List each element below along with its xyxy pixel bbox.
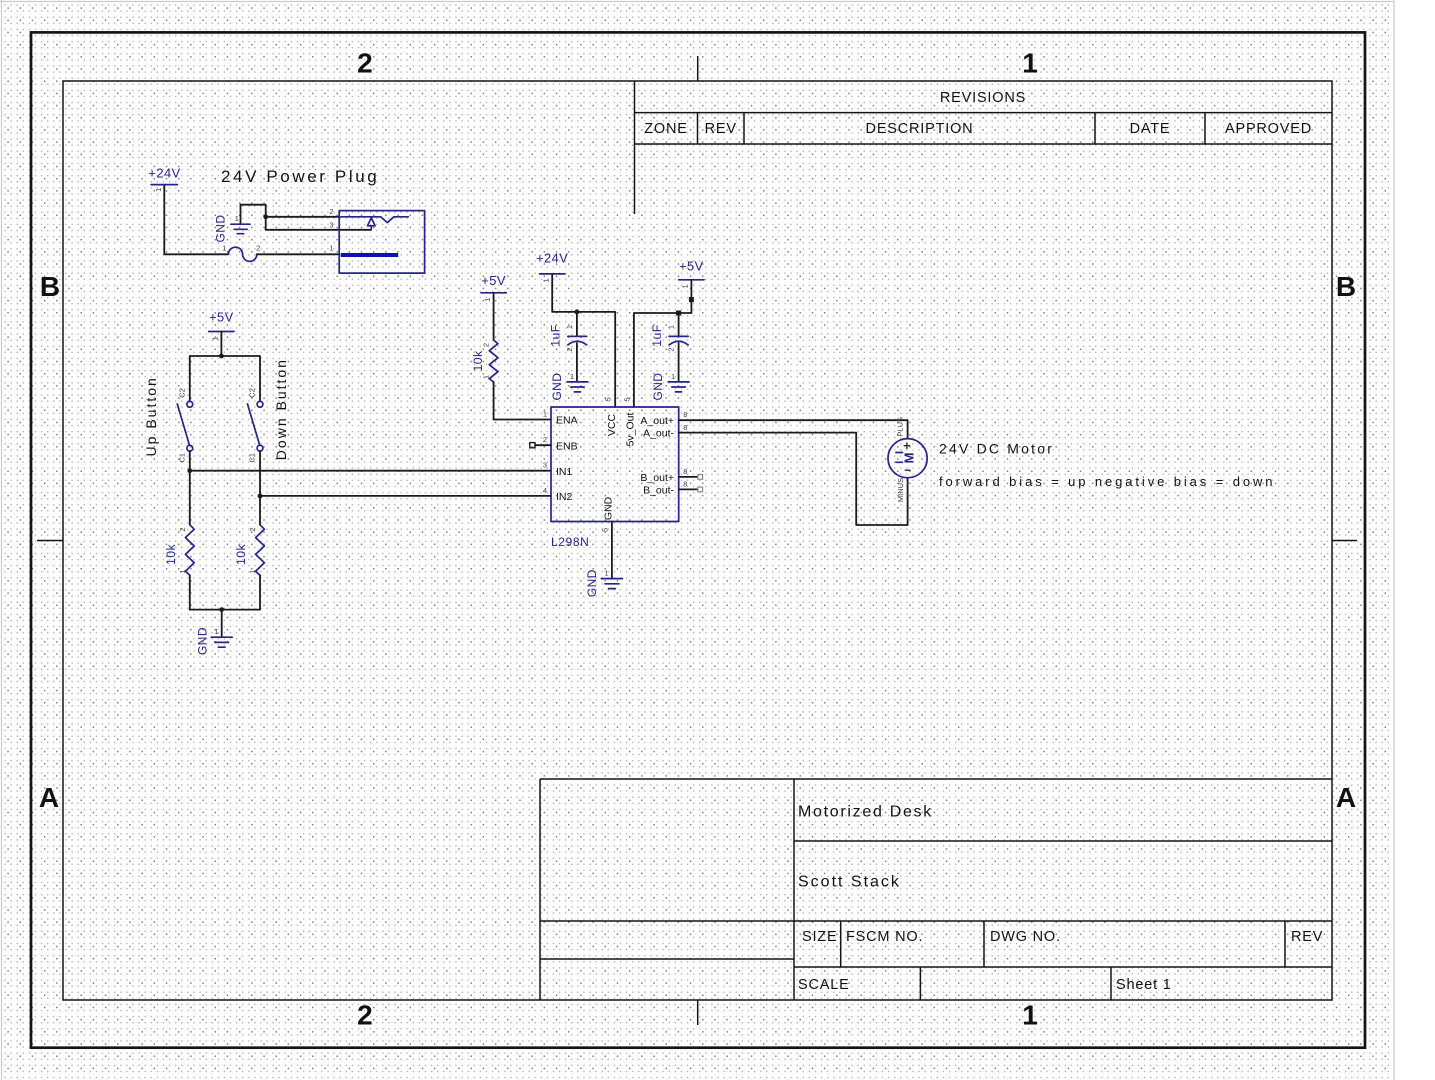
svg-text:C2: C2 [248, 388, 257, 398]
svg-text:B_out+: B_out+ [640, 472, 674, 484]
svg-text:1: 1 [482, 375, 491, 379]
svg-text:IN1: IN1 [556, 466, 573, 478]
svg-text:1: 1 [570, 372, 574, 381]
op-amp U1 L298N body [543, 397, 688, 532]
B_out- stub [679, 487, 703, 492]
wire +24V to VCC [552, 274, 615, 407]
svg-text:2: 2 [357, 1000, 373, 1031]
ENB no-connect stub [530, 443, 551, 448]
capacitor C1 1uF [548, 312, 586, 381]
svg-text:SCALE: SCALE [798, 977, 850, 993]
power symbol +5V (ENA) [481, 273, 506, 302]
svg-text:Scott Stack: Scott Stack [798, 874, 901, 891]
barrel jack J1 [339, 211, 424, 274]
svg-text:SIZE: SIZE [802, 929, 837, 945]
revisions table lines [635, 81, 1333, 214]
svg-text:+24V: +24V [148, 166, 180, 181]
svg-text:2: 2 [543, 435, 547, 444]
wire +5V to R3 [493, 293, 495, 340]
svg-text:1: 1 [211, 336, 220, 340]
wire bottom rail [190, 609, 260, 611]
switch SW1 Up [177, 388, 192, 462]
svg-text:Motorized Desk: Motorized Desk [798, 804, 933, 821]
svg-text:3: 3 [543, 461, 547, 470]
power symbol +5V (buttons) [209, 310, 234, 341]
svg-text:8: 8 [683, 480, 687, 489]
svg-text:2: 2 [482, 343, 491, 347]
svg-text:1: 1 [667, 325, 676, 329]
svg-text:1: 1 [248, 569, 257, 573]
svg-text:ENA: ENA [556, 415, 578, 427]
svg-text:5: 5 [601, 528, 610, 532]
zone tick bottom [697, 1000, 699, 1025]
svg-text:DATE: DATE [1130, 121, 1171, 137]
svg-text:GND: GND [651, 373, 665, 401]
svg-text:GND: GND [603, 496, 615, 520]
svg-text:A_out+: A_out+ [640, 415, 674, 427]
svg-text:+5V: +5V [679, 259, 704, 274]
wire fuse to jack pin1 [257, 253, 339, 255]
ground GND (buttons) [195, 627, 232, 655]
junction [575, 310, 580, 315]
svg-text:10k: 10k [234, 544, 248, 565]
svg-text:5v_Out: 5v_Out [624, 412, 636, 446]
svg-text:1: 1 [329, 244, 333, 253]
wire IN1 [190, 470, 551, 472]
svg-text:ENB: ENB [556, 440, 578, 452]
svg-text:A: A [39, 782, 59, 813]
svg-text:L298N: L298N [551, 535, 589, 549]
wire to jack pin2 [266, 216, 340, 218]
power symbol +5V (right) [679, 259, 704, 289]
svg-text:1: 1 [483, 297, 492, 301]
svg-text:REV: REV [1291, 929, 1323, 945]
wire IC gnd [611, 522, 613, 579]
svg-text:B: B [1336, 271, 1356, 302]
power symbol +24V (VCC) [536, 251, 568, 283]
B_out+ stub [679, 475, 703, 480]
svg-text:1: 1 [681, 284, 690, 288]
zone tick right [1332, 540, 1357, 542]
svg-text:8: 8 [683, 410, 687, 419]
svg-text:APPROVED: APPROVED [1225, 121, 1312, 137]
wire to jack pin3 [266, 229, 371, 231]
inner border frame [63, 81, 1332, 1000]
svg-text:GND: GND [214, 215, 228, 243]
svg-text:1: 1 [222, 244, 226, 253]
svg-text:C1: C1 [177, 453, 186, 463]
svg-text:DESCRIPTION: DESCRIPTION [866, 121, 974, 137]
svg-text:1: 1 [543, 410, 547, 419]
svg-text:+5V: +5V [481, 273, 506, 288]
svg-text:1: 1 [671, 372, 675, 381]
svg-text:ZONE: ZONE [644, 121, 687, 137]
wire gnd riser [241, 205, 266, 230]
ground GND (C1) [550, 372, 588, 401]
svg-text:1: 1 [235, 214, 239, 223]
capacitor C2 1uF [650, 313, 688, 381]
svg-text:1uF: 1uF [650, 324, 664, 346]
svg-text:1: 1 [178, 569, 187, 573]
svg-text:2: 2 [357, 48, 373, 79]
svg-text:IN2: IN2 [556, 491, 573, 503]
fuse F1 [222, 244, 260, 262]
svg-text:1: 1 [605, 569, 609, 578]
svg-text:24V Power Plug: 24V Power Plug [221, 167, 379, 186]
svg-text:FSCM NO.: FSCM NO. [846, 929, 923, 945]
svg-text:2: 2 [256, 244, 260, 253]
svg-text:A: A [1336, 782, 1356, 813]
svg-text:24V DC Motor: 24V DC Motor [939, 441, 1054, 457]
svg-text:M: M [902, 453, 917, 464]
svg-text:VCC: VCC [606, 413, 618, 436]
wire +5V stub [220, 332, 222, 357]
svg-text:+5V: +5V [209, 310, 234, 325]
wire A_out- to motor [679, 433, 908, 525]
junction [258, 494, 263, 499]
svg-text:1: 1 [215, 627, 219, 636]
junction square upper [689, 297, 694, 302]
svg-text:1uF: 1uF [548, 324, 562, 346]
wire split to switches [190, 356, 260, 401]
svg-text:GND: GND [550, 373, 564, 401]
wire to gnd [221, 610, 223, 637]
zone tick top [697, 56, 699, 81]
switch SW2 Down [248, 388, 263, 462]
junction [219, 354, 224, 359]
title block lines [540, 779, 1332, 1000]
svg-text:5: 5 [622, 397, 631, 401]
ground GND (plug) [214, 205, 251, 243]
svg-text:2: 2 [667, 347, 676, 351]
svg-text:MINUS: MINUS [896, 478, 905, 502]
resistor R3 10k [471, 340, 498, 382]
resistor R2 10k [234, 496, 264, 610]
svg-text:forward bias = up negative bia: forward bias = up negative bias = down [939, 474, 1275, 489]
svg-text:2: 2 [248, 527, 257, 531]
svg-text:GND: GND [195, 627, 209, 655]
wire A_out+ to motor [679, 420, 908, 438]
svg-text:Up Button: Up Button [143, 376, 159, 456]
svg-text:B: B [40, 271, 60, 302]
junction [263, 214, 268, 219]
svg-text:4: 4 [543, 486, 547, 495]
wire +5V right down [634, 280, 692, 407]
svg-text:1: 1 [1022, 48, 1038, 79]
svg-text:Down Button: Down Button [273, 358, 289, 460]
ground GND (IC) [585, 569, 623, 598]
wire SW2 to IN2 junction [259, 451, 261, 496]
wire SW1 to IN1 junction [189, 451, 191, 471]
svg-text:B_out-: B_out- [643, 485, 674, 497]
zone tick left [37, 540, 63, 542]
wire +24V to fuse [164, 186, 228, 255]
svg-text:10k: 10k [164, 544, 178, 565]
svg-text:C2: C2 [177, 388, 186, 398]
svg-text:2: 2 [329, 207, 333, 216]
svg-text:REV: REV [705, 121, 737, 137]
title block text [798, 804, 1323, 994]
svg-text:A_out-: A_out- [643, 428, 674, 440]
svg-text:2: 2 [178, 527, 187, 531]
junction [187, 468, 192, 473]
svg-text:REVISIONS: REVISIONS [940, 90, 1026, 106]
svg-text:10k: 10k [471, 350, 485, 371]
resistor R1 10k [164, 471, 194, 610]
wire R3 to ENA [494, 382, 551, 420]
motor M1 [888, 417, 927, 502]
junction square lower [676, 311, 681, 316]
svg-text:GND: GND [585, 569, 599, 597]
svg-text:1: 1 [1022, 1000, 1038, 1031]
ground GND (C2) [651, 372, 689, 401]
svg-text:8: 8 [683, 467, 687, 476]
wire IN2 [260, 495, 551, 497]
svg-text:1: 1 [565, 325, 574, 329]
svg-text:8: 8 [683, 423, 687, 432]
svg-text:1: 1 [542, 278, 551, 282]
svg-text:+24V: +24V [536, 251, 568, 266]
junction [219, 607, 224, 612]
svg-text:C1: C1 [248, 453, 257, 463]
power symbol +24V (plug) [148, 166, 180, 192]
svg-text:1: 1 [154, 188, 163, 192]
revisions table header text [644, 90, 1312, 137]
svg-text:PLUS: PLUS [896, 417, 905, 437]
svg-text:Sheet 1: Sheet 1 [1116, 977, 1172, 993]
svg-text:5: 5 [604, 397, 613, 401]
svg-text:3: 3 [329, 221, 333, 230]
svg-text:2: 2 [565, 347, 574, 351]
svg-text:DWG NO.: DWG NO. [990, 929, 1061, 945]
